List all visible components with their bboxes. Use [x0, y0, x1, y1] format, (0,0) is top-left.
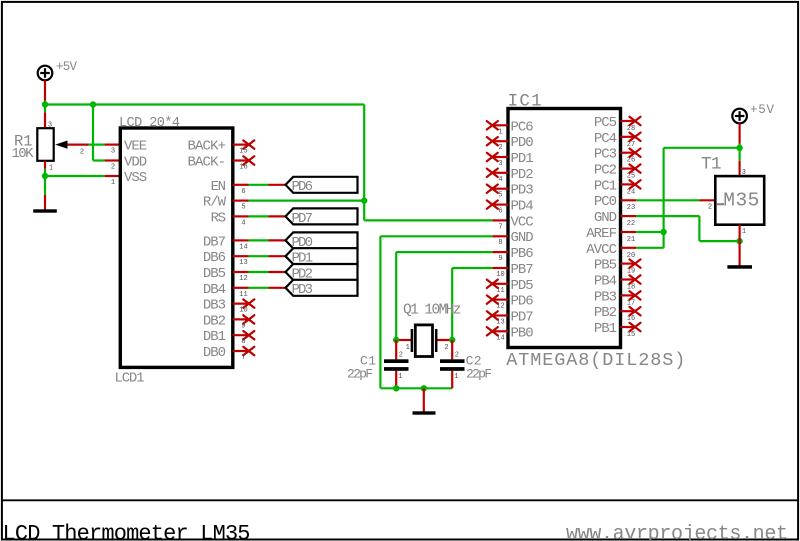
- svg-text:2: 2: [80, 148, 84, 156]
- svg-text:VCC: VCC: [511, 214, 534, 230]
- svg-text:PB1: PB1: [594, 321, 617, 337]
- svg-text:PD6: PD6: [292, 179, 314, 195]
- svg-text:PC5: PC5: [594, 115, 617, 131]
- svg-text:16: 16: [239, 164, 247, 172]
- svg-text:1: 1: [454, 373, 458, 381]
- svg-text:2: 2: [498, 144, 502, 152]
- svg-text:6: 6: [498, 208, 502, 216]
- svg-text:M35: M35: [723, 189, 759, 211]
- svg-text:8: 8: [241, 338, 245, 346]
- svg-text:VDD: VDD: [124, 155, 147, 171]
- svg-text:14: 14: [239, 243, 247, 251]
- svg-text:IC1: IC1: [508, 92, 542, 112]
- svg-text:23: 23: [627, 204, 635, 212]
- svg-text:+5V: +5V: [750, 103, 774, 117]
- svg-text:18: 18: [627, 284, 635, 292]
- svg-text:21: 21: [627, 236, 635, 244]
- svg-text:25: 25: [627, 173, 635, 181]
- svg-text:PB5: PB5: [594, 258, 617, 274]
- svg-text:3: 3: [742, 169, 746, 177]
- svg-text:DB2: DB2: [203, 313, 226, 329]
- svg-text:GND: GND: [511, 230, 534, 246]
- svg-text:BACK+: BACK+: [188, 139, 227, 155]
- svg-text:1: 1: [498, 128, 502, 136]
- svg-text:3: 3: [48, 121, 52, 129]
- svg-text:PD6: PD6: [511, 294, 534, 310]
- svg-text:11: 11: [239, 291, 247, 299]
- svg-text:5: 5: [498, 192, 502, 200]
- svg-text:PC1: PC1: [594, 178, 617, 194]
- svg-text:PD0: PD0: [511, 135, 534, 151]
- svg-text:AVCC: AVCC: [586, 242, 617, 258]
- svg-text:PD5: PD5: [511, 278, 534, 294]
- svg-text:2: 2: [444, 344, 448, 352]
- svg-text:20: 20: [627, 252, 635, 260]
- svg-text:www.avrprojects.net: www.avrprojects.net: [566, 523, 788, 541]
- svg-text:VSS: VSS: [124, 170, 147, 186]
- svg-text:27: 27: [627, 141, 635, 149]
- svg-text:+5V: +5V: [56, 60, 77, 74]
- svg-text:BACK-: BACK-: [188, 155, 227, 171]
- svg-text:7: 7: [241, 354, 245, 362]
- svg-text:DB4: DB4: [203, 282, 226, 298]
- svg-text:5: 5: [241, 204, 245, 212]
- svg-text:PD4: PD4: [511, 199, 534, 215]
- svg-text:PD2: PD2: [511, 167, 534, 183]
- svg-text:PB2: PB2: [594, 305, 617, 321]
- svg-text:24: 24: [627, 188, 635, 196]
- svg-text:PC4: PC4: [594, 131, 617, 147]
- svg-text:22pF: 22pF: [347, 366, 373, 381]
- svg-text:LCD 20*4: LCD 20*4: [119, 116, 180, 131]
- svg-text:PC3: PC3: [594, 147, 617, 163]
- svg-text:10K: 10K: [12, 146, 35, 162]
- svg-text:DB3: DB3: [203, 298, 226, 314]
- svg-text:4: 4: [498, 176, 502, 184]
- svg-text:DB0: DB0: [203, 345, 226, 361]
- svg-text:19: 19: [627, 268, 635, 276]
- svg-text:2: 2: [399, 351, 403, 359]
- svg-text:2: 2: [455, 351, 459, 359]
- svg-text:PD3: PD3: [511, 183, 534, 199]
- svg-text:LCD Thermometer LM35: LCD Thermometer LM35: [3, 521, 251, 541]
- svg-text:RS: RS: [211, 210, 226, 226]
- svg-text:28: 28: [627, 125, 635, 133]
- svg-text:1: 1: [406, 344, 410, 352]
- svg-text:PB3: PB3: [594, 289, 617, 305]
- svg-text:DB6: DB6: [203, 250, 226, 266]
- svg-text:3: 3: [111, 148, 115, 156]
- svg-text:15: 15: [627, 331, 635, 339]
- svg-text:AREF: AREF: [586, 226, 617, 242]
- svg-text:EN: EN: [211, 179, 226, 195]
- svg-text:VEE: VEE: [124, 139, 147, 155]
- svg-text:DB7: DB7: [203, 234, 226, 250]
- svg-text:12: 12: [239, 275, 247, 283]
- svg-text:17: 17: [627, 299, 635, 307]
- svg-text:DB5: DB5: [203, 266, 226, 282]
- svg-text:3: 3: [498, 160, 502, 168]
- svg-text:6: 6: [241, 188, 245, 196]
- svg-text:Q1 10MHz: Q1 10MHz: [403, 302, 462, 318]
- svg-text:8: 8: [498, 239, 502, 247]
- svg-text:DB1: DB1: [203, 329, 226, 345]
- svg-text:PD7: PD7: [511, 310, 534, 326]
- svg-text:ATMEGA8(DIL28S): ATMEGA8(DIL28S): [506, 350, 685, 371]
- svg-text:10: 10: [239, 307, 247, 315]
- svg-text:PB7: PB7: [511, 262, 534, 278]
- svg-text:9: 9: [241, 322, 245, 330]
- svg-text:10: 10: [496, 271, 504, 279]
- svg-text:PB4: PB4: [594, 274, 617, 290]
- svg-text:PD1: PD1: [511, 151, 534, 167]
- svg-text:1: 1: [398, 373, 402, 381]
- svg-text:9: 9: [498, 255, 502, 263]
- svg-text:13: 13: [239, 259, 247, 267]
- svg-text:GND: GND: [594, 210, 617, 226]
- svg-text:22pF: 22pF: [466, 366, 492, 381]
- svg-text:R/W: R/W: [203, 195, 227, 211]
- svg-text:22: 22: [627, 220, 635, 228]
- svg-text:2: 2: [111, 164, 115, 172]
- svg-text:PC2: PC2: [594, 163, 617, 179]
- svg-text:7: 7: [498, 223, 502, 231]
- svg-text:LCD1: LCD1: [115, 371, 145, 387]
- svg-text:1: 1: [742, 228, 746, 236]
- svg-text:PC6: PC6: [511, 119, 534, 135]
- svg-text:PD7: PD7: [292, 211, 314, 227]
- svg-text:26: 26: [627, 157, 635, 165]
- svg-text:16: 16: [627, 315, 635, 323]
- svg-text:2: 2: [708, 204, 712, 212]
- svg-text:4: 4: [241, 219, 245, 227]
- svg-text:T1: T1: [701, 155, 722, 175]
- svg-text:PB0: PB0: [511, 325, 534, 341]
- svg-text:1: 1: [49, 164, 53, 172]
- svg-text:PB6: PB6: [511, 246, 534, 262]
- svg-text:PD3: PD3: [292, 282, 314, 298]
- svg-text:PC0: PC0: [594, 194, 617, 210]
- svg-text:15: 15: [239, 148, 247, 156]
- svg-text:1: 1: [111, 179, 115, 187]
